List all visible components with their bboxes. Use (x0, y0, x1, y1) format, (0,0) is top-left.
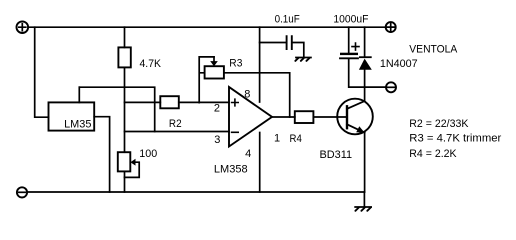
trimmer 100 wiper arrow (125, 162, 140, 177)
svg-text:4: 4 (245, 148, 251, 160)
wire diode to collector (364, 70, 366, 101)
wire LM35 gnd (94, 117, 109, 192)
transistor Q1 BD311 (337, 99, 373, 135)
R3 wiper arrow (213, 57, 215, 62)
svg-text:1: 1 (274, 133, 280, 145)
trimmer 100 (118, 152, 131, 171)
svg-text:R2 = 22/33K: R2 = 22/33K (409, 118, 469, 130)
op-amp U1 LM358 (229, 87, 272, 147)
wire pin4 to ground rail (259, 133, 261, 193)
wire R3 wiper to left terminal and down to pin2 net (199, 57, 214, 103)
wire R2 to pin2 (179, 101, 229, 103)
wire top rail (29, 26, 386, 28)
wire 4.7K top (124, 27, 126, 47)
capacitor 1000uF electrolytic (340, 43, 359, 58)
wire bottom rail (28, 191, 365, 193)
op-amp minus input mark (232, 131, 239, 133)
wire diode top (364, 27, 366, 57)
svg-text:2: 2 (214, 103, 220, 115)
svg-text:1N4007: 1N4007 (380, 58, 418, 70)
svg-text:8: 8 (244, 88, 250, 100)
svg-text:LM35: LM35 (64, 118, 91, 130)
terminal -V left (17, 187, 27, 197)
svg-text:R3 = 4.7K trimmer: R3 = 4.7K trimmer (409, 133, 501, 145)
op-amp plus input mark (232, 99, 239, 106)
diode D1 1N4007 (359, 57, 372, 70)
svg-text:0.1uF: 0.1uF (275, 13, 300, 25)
terminal +V left (17, 21, 29, 33)
svg-text:BD311: BD311 (320, 149, 353, 161)
LM35 U2 (49, 102, 95, 130)
svg-text:R4: R4 (290, 133, 302, 145)
wire R3 right to output (224, 73, 290, 117)
resistor R2 (160, 96, 179, 108)
wire drop to LM35 Vcc (35, 27, 49, 117)
wire R4 to base (313, 116, 347, 118)
trimmer R3 (205, 66, 224, 78)
terminal - fan (386, 82, 396, 92)
svg-text:R2: R2 (169, 118, 182, 130)
wire 1000uF bottom to minus terminal (349, 58, 387, 87)
ground (chassis) small (295, 58, 311, 61)
resistor R4 (295, 111, 314, 123)
svg-text:R4 = 2.2K: R4 = 2.2K (409, 148, 457, 160)
wire op-amp output (272, 116, 295, 118)
svg-text:4.7K: 4.7K (140, 58, 162, 70)
wire emitter down (364, 133, 366, 192)
wire trimmer bottom (124, 171, 126, 192)
wire divider middle (124, 67, 126, 152)
wire 0.1uF branch (260, 42, 286, 44)
wire LM35 output across and down (79, 87, 154, 131)
terminal + fan (386, 22, 396, 32)
svg-text:3: 3 (214, 134, 220, 146)
svg-text:VENTOLA: VENTOLA (409, 44, 458, 56)
wire 1000uF drop (348, 27, 350, 53)
svg-text:LM358: LM358 (214, 164, 248, 176)
wire V+ pin8 drop (259, 27, 261, 102)
wire 0.1uF to ground (293, 43, 304, 57)
svg-text:1000uF: 1000uF (333, 13, 368, 25)
capacitor 0.1uF (287, 36, 292, 49)
resistor 4.7K (118, 47, 130, 67)
wire LM35 output up (78, 87, 80, 102)
ground (chassis) main (355, 192, 371, 211)
svg-text:100: 100 (139, 148, 157, 160)
wire node to R2 (125, 101, 161, 103)
svg-text:R3: R3 (229, 57, 242, 69)
wire node to pin3 (125, 131, 230, 133)
